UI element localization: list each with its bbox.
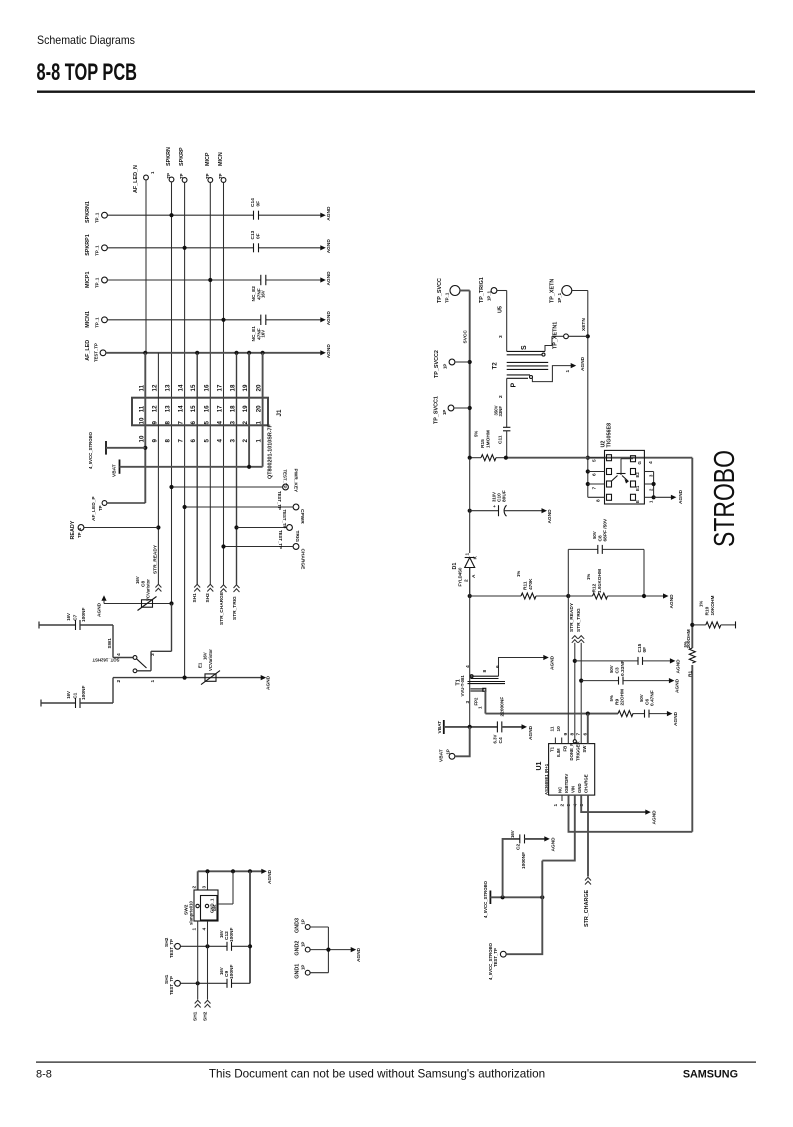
testpoint MICN1 TP_1 [85,311,107,328]
node STR_TRIG chevron to U1 [576,608,584,744]
power 4_5VCC_STROBO bar [88,431,145,469]
power VBAT bar [112,460,263,478]
svg-text:SH2: SH2 [203,1011,209,1021]
node SH1 chevron bottom [193,1000,201,1021]
svg-text:NC_E2: NC_E2 [251,286,257,302]
capacitor NC_E1 47NF 16V [251,315,266,342]
power 4_5VCC_STROBO bar right [483,880,544,918]
ground AGND R12 [663,593,675,608]
svg-text:AGND: AGND [356,947,362,962]
resistor R11 470K [468,571,569,599]
svg-text:CHARGE: CHARGE [300,549,306,571]
svg-text:1: 1 [565,370,571,373]
svg-text:A: A [471,574,477,578]
svg-text:VBAT: VBAT [439,749,445,762]
testpoint VBAT 1P [439,727,470,762]
svg-text:K: K [473,556,479,560]
svg-text:AS3685E1 IR+1: AS3685E1 IR+1 [544,763,549,795]
svg-text:20: 20 [256,384,263,391]
capacitor C1 100NF 16V [41,678,113,708]
capacitor C10 80UF 310V electrolytic [468,490,543,516]
testpoint PWR_KEY TEST_TP [169,469,298,494]
svg-text:AGND: AGND [97,602,103,617]
svg-text:R10: R10 [705,606,711,615]
svg-text:TP_1: TP_1 [445,292,450,303]
node STR_READY chevron [153,544,162,591]
svg-text:AF_LED_P: AF_LED_P [91,496,97,521]
capacitor C14 [250,198,262,220]
testpoint SPKRN1 TP_1 [85,201,107,223]
svg-text:IGBTDRV: IGBTDRV [564,774,569,793]
ground AGND row5 [320,344,332,359]
svg-text:TP: TP [166,173,171,179]
svg-text:1P_1: 1P_1 [487,290,492,301]
svg-text:4: 4 [217,421,224,425]
svg-text:TP_1: TP_1 [95,277,100,288]
testpoint TP_SVCC TP_1 [437,278,470,303]
svg-text:18: 18 [230,384,237,391]
svg-text:1MOHM: 1MOHM [486,430,492,448]
svg-text:TP: TP [218,173,223,179]
svg-text:50V: 50V [609,665,614,673]
wire J1 pin18-3 column STR_TRIG net [234,353,238,585]
svg-text:4_5VCC_STROBO: 4_5VCC_STROBO [483,880,488,918]
svg-text:MICP1: MICP1 [85,272,91,288]
testpoint SH1 TEST_TP [164,974,180,995]
svg-text:2: 2 [464,579,470,582]
svg-text:T2: T2 [492,362,499,370]
testpoint GND1 [295,964,311,979]
testpoint TP MICP [205,152,213,182]
resistor R10 10KOHM [692,596,735,629]
wire SH2 row [180,921,250,1000]
svg-text:0F: 0F [642,647,648,653]
ground AGND C3 [669,678,681,693]
svg-text:FB: FB [563,746,568,752]
svg-text:C2: C2 [516,844,522,850]
svg-text:TEST_TP: TEST_TP [278,530,283,549]
svg-text:det: det [212,904,217,911]
svg-text:16V: 16V [261,330,266,338]
svg-text:10KOHM: 10KOHM [710,596,716,616]
svg-text:7: 7 [178,421,185,425]
svg-text:STR_CHARGE: STR_CHARGE [219,591,225,625]
svg-text:2: 2 [498,395,504,398]
svg-text:1P_1: 1P_1 [557,292,562,303]
svg-text:SW: SW [582,745,587,753]
capacitor C8 68PF/50V feedback loop [566,518,644,598]
svg-text:C7: C7 [73,614,79,620]
svg-text:13: 13 [165,405,172,412]
svg-text:2: 2 [192,886,198,889]
ground AGND GND harness [351,947,362,962]
svg-text:33NF: 33NF [498,406,503,417]
svg-text:MICP: MICP [205,152,211,166]
svg-text:TEST_TP: TEST_TP [169,976,174,995]
ground AGND T1 pin6 [543,655,555,670]
svg-text:18: 18 [230,405,237,412]
svg-text:E: E [635,500,640,503]
svg-text:AGND: AGND [547,509,553,524]
ground AGND U1 GND [645,810,657,825]
svg-text:TIG056E8: TIG056E8 [607,423,613,448]
svg-text:SH2: SH2 [205,593,211,603]
svg-text:AGND: AGND [267,869,273,884]
wire T1 secondary row R9 C6 [485,712,668,716]
svg-text:SVCC: SVCC [463,330,469,344]
ground AGND row3 [320,271,332,286]
testpoint TP_SVCC2 [434,350,470,378]
capacitor C9 100NF 16V [219,965,235,988]
svg-text:STR_CHARGE: STR_CHARGE [584,889,590,927]
node STR_CHARGE chevron bottom [584,877,591,927]
svg-text:READY: READY [70,520,76,539]
svg-text:3: 3 [498,335,504,338]
diode D1 [452,458,479,596]
wire TRIG1 vertical [498,291,507,352]
resistor R1 200OHM [683,629,695,677]
testpoint SH2 TEST_TP [164,937,180,958]
transformer T2 [492,336,573,427]
svg-text:AGND: AGND [550,655,556,670]
ground AGND T2 pin1 [571,356,586,371]
wire U1 pin6 SW vertical [587,714,589,744]
svg-text:16V: 16V [66,613,71,621]
svg-text:R12: R12 [592,583,598,592]
svg-text:4: 4 [116,653,122,656]
svg-text:AGND: AGND [580,356,586,371]
svg-text:MICN1: MICN1 [85,311,91,328]
wire MICN1 row [107,318,320,322]
svg-text:0F: 0F [256,233,262,239]
svg-text:C14: C14 [250,198,256,207]
wire J1 pin19-2 column VBAT net [248,353,250,467]
wire MICP1 row [107,278,320,282]
svg-text:22000NF: 22000NF [500,697,506,717]
svg-text:1: 1 [256,421,263,425]
wire SPKRN vertical J1 pin13-8 column [171,182,173,604]
svg-text:TEST_TP: TEST_TP [94,343,99,362]
wire SVCC vertical [463,291,472,458]
svg-text:0F: 0F [256,201,262,207]
svg-text:2: 2 [242,439,249,443]
svg-text:TEST_TP: TEST_TP [169,939,174,958]
svg-text:3: 3 [649,474,654,477]
svg-text:U1: U1 [536,761,543,770]
svg-text:12: 12 [151,405,158,412]
svg-text:1P: 1P [301,919,306,924]
svg-text:1%: 1% [699,601,704,607]
svg-text:19: 19 [242,384,249,391]
svg-text:1: 1 [553,804,559,807]
svg-text:1: 1 [150,171,155,174]
wire AF_LED row [106,351,321,355]
wire J1 pin20-1 column [262,353,264,467]
svg-text:3: 3 [465,701,471,704]
resistor R12 1.91KOHM [568,569,664,599]
IC U1 AS3685E1 [536,726,595,807]
svg-text:8: 8 [569,733,575,736]
wire SPKRP vertical J1 pin14-7 column [184,183,186,678]
svg-text:FP2: FP2 [474,697,479,705]
svg-text:AF_LED_N: AF_LED_N [133,165,139,193]
svg-text:11: 11 [550,726,556,731]
capacitor C3 0.33NF 50V [581,660,670,684]
svg-text:STR_READY: STR_READY [569,602,575,632]
svg-text:200OHM: 200OHM [686,629,692,648]
testpoint AF_LED TEST_TP [85,340,106,362]
svg-text:16V: 16V [510,830,515,838]
svg-text:AGND: AGND [678,489,684,504]
wire SH1 row [180,921,250,1000]
svg-text:4: 4 [465,665,471,668]
svg-text:FYLD4S0: FYLD4S0 [458,567,463,586]
svg-text:5%: 5% [474,431,479,437]
svg-text:1: 1 [192,928,198,931]
testpoint GND2 [295,941,311,956]
svg-text:0.33NF: 0.33NF [620,660,626,676]
svg-text:TP_SVCC2: TP_SVCC2 [434,350,440,378]
svg-text:AGND: AGND [266,675,272,690]
svg-text:5: 5 [203,439,210,443]
svg-text:AGND: AGND [652,810,658,825]
svg-text:16V: 16V [135,576,140,584]
wire MICN vertical J1 pin17-4 column [223,183,225,585]
svg-text:STR_READY: STR_READY [153,544,159,574]
testpoint TP_XETN1 [552,322,588,349]
capacitor C7 100NF 16V [39,608,113,630]
svg-text:STR_TRIG: STR_TRIG [232,596,238,620]
svg-text:7: 7 [592,487,598,490]
testpoint TRIG TEST_TP [237,510,301,543]
capacitor C13 [250,230,262,252]
wire MICP vertical J1 pin16-5 column [209,183,211,585]
node SH1 chevron [192,584,200,602]
svg-text:QT800201-1010SR-7F: QT800201-1010SR-7F [268,423,274,479]
wire GND harness [310,927,352,973]
svg-text:C3: C3 [615,667,621,673]
svg-text:NC_E1: NC_E1 [251,326,257,342]
wire U1 pin2 IGBTDRV gate line [569,795,693,832]
svg-text:TP_1: TP_1 [95,317,100,328]
svg-text:14: 14 [178,384,185,391]
svg-text:1: 1 [478,706,484,709]
svg-text:SPKRN: SPKRN [166,147,172,166]
capacitor C12 100NF 16V [219,928,235,951]
svg-text:STR_TRIG: STR_TRIG [576,608,582,632]
testpoint CHARGE TEST_TP [221,530,305,570]
testpoint TP_XETN TP_1 [550,279,588,303]
J1 pin numbers inside bottom 10-1 [138,417,262,424]
svg-text:Schematic Diagrams: Schematic Diagrams [37,33,135,47]
svg-text:6: 6 [592,473,598,476]
svg-text:20: 20 [256,405,263,412]
svg-text:2: 2 [116,680,122,683]
svg-text:R15: R15 [480,439,486,448]
ground AGND C2 [544,836,556,851]
svg-text:6.3V: 6.3V [493,735,498,744]
svg-text:470K: 470K [528,578,534,590]
svg-text:7: 7 [576,733,582,736]
svg-text:C4: C4 [498,737,504,743]
svg-text:SPKRP1: SPKRP1 [85,234,91,256]
svg-text:5%: 5% [609,695,614,701]
wire U1 pin9 FB vertical [567,596,569,744]
svg-text:11: 11 [138,384,145,391]
svg-text:J1: J1 [276,409,283,416]
svg-text:19: 19 [242,405,249,412]
node SH2 chevron [205,584,213,602]
svg-text:8: 8 [165,439,172,443]
wire SW2 right vertical [248,871,252,983]
svg-text:8: 8 [165,421,172,425]
svg-text:1P: 1P [301,942,306,947]
svg-text:SOT_162HST: SOT_162HST [92,658,119,663]
svg-text:4: 4 [217,439,224,443]
svg-text:8: 8 [596,499,602,502]
svg-text:5: 5 [592,459,598,462]
testpoint TP_SVCC1 [434,396,470,424]
wire VIN to 4_5VCC [541,861,543,898]
svg-text:TP_SVCC1: TP_SVCC1 [434,396,440,424]
J1 pin numbers below outside 10-1 [138,435,262,442]
node STR_CHARGE chevron [219,585,227,625]
svg-text:AGND: AGND [551,837,557,852]
wire U1 pin4 GND [581,795,646,812]
svg-text:1P: 1P [442,410,447,415]
testpoint 4_5VCC_STROBO TEST_TP [488,897,542,980]
node STR_TRIG chevron [232,585,240,620]
svg-text:VCVaristor: VCVaristor [146,579,151,601]
svg-text:9: 9 [151,421,158,425]
svg-text:3: 3 [230,439,237,443]
ground AGND row4 [320,311,332,326]
svg-text:17: 17 [217,405,224,412]
svg-text:TP: TP [179,173,184,179]
capacitor C6 0.47NF 50V [639,690,656,717]
svg-text:15: 15 [190,384,197,391]
switch SW1 SOT_162HST [92,604,171,683]
testpoint MICP1 TP_1 [85,272,107,288]
ground AGND SW2 row [261,869,273,884]
svg-text:AGND: AGND [326,344,332,359]
wire J1 pin15-6 column SH1 net [196,353,198,585]
varistor C8 16V [135,576,174,610]
svg-text:16V: 16V [66,691,71,699]
svg-text:STROBO: STROBO [709,450,741,547]
wire J1 pin11-10 column AF_LED_P net [143,353,147,503]
svg-text:TP_TRIG1: TP_TRIG1 [479,277,485,303]
svg-text:17: 17 [217,384,224,391]
svg-text:SPKRP: SPKRP [179,147,185,166]
svg-text:4_5VCC_STROBO: 4_5VCC_STROBO [88,431,93,469]
testpoint TP SPKRN [166,147,174,182]
svg-text:15: 15 [190,405,197,412]
svg-text:T1: T1 [550,746,555,752]
svg-text:22OHM: 22OHM [620,689,626,706]
wire U1 pin3 VIN [542,795,575,861]
svg-text:100NF: 100NF [229,965,235,979]
svg-text:C1: C1 [73,692,79,698]
capacitor C15 0F [575,643,671,665]
svg-text:1%: 1% [516,571,521,577]
wire SW2 top AGND row [198,869,262,873]
wire U1 pin1 NC stub [561,795,563,801]
svg-text:+: + [492,505,497,508]
svg-text:R1: R1 [688,671,694,677]
J1 pin numbers inside top 11-20 [138,405,262,412]
svg-text:P: P [511,383,518,388]
svg-text:1P: 1P [301,965,306,970]
svg-text:2: 2 [649,488,654,491]
testpoint READY TP_1 [70,520,158,539]
svg-text:14: 14 [178,405,185,412]
svg-text:C11: C11 [498,435,504,444]
svg-text:CPWR: CPWR [299,509,305,524]
switch SW2 [184,871,234,930]
transformer T1 [456,568,545,727]
svg-text:TEST_TP: TEST_TP [277,491,282,510]
node SH2 chevron bottom [203,1000,211,1021]
testpoint CPWR TEST_TP [183,491,306,524]
svg-text:100NF: 100NF [81,686,87,700]
svg-text:16V: 16V [219,930,224,938]
capacitor C4 22000NF 6.3V [493,697,523,744]
svg-text:SH1: SH1 [192,593,198,603]
svg-text:AF_LED: AF_LED [85,340,91,361]
svg-text:E1: E1 [635,485,640,491]
svg-text:SW1: SW1 [107,638,113,649]
resistor R15 1MOHM [474,430,497,461]
svg-text:100NF: 100NF [81,608,87,622]
svg-text:310V: 310V [492,492,497,502]
capacitor C11 33NF 350V [494,405,511,457]
svg-text:5: 5 [203,421,210,425]
svg-text:TRIG: TRIG [294,531,300,543]
svg-text:TEST_TP: TEST_TP [493,948,498,967]
svg-text:6: 6 [190,439,197,443]
ground AGND row2 [320,239,332,254]
wire SPKRP1 row [107,246,320,250]
svg-text:1000NF: 1000NF [521,852,527,869]
ground AGND varistor row [97,595,142,617]
J1 pin numbers top outside 11-20 [138,384,262,391]
ground AGND C4 [522,724,535,740]
svg-text:10: 10 [138,435,145,442]
svg-text:1%: 1% [586,574,591,580]
testpoint SPKRP1 TP_1 [85,234,107,256]
svg-text:11: 11 [138,405,145,412]
svg-text:16V: 16V [203,652,208,660]
svg-text:AGND: AGND [675,678,681,693]
svg-text:3: 3 [150,653,156,656]
svg-text:16V: 16V [219,967,224,975]
svg-text:80UF: 80UF [502,490,508,502]
svg-text:U5: U5 [498,306,504,313]
svg-text:VBAT: VBAT [112,464,118,477]
svg-text:16: 16 [203,405,210,412]
svg-text:1P: 1P [446,749,451,754]
svg-text:50V: 50V [639,694,644,702]
svg-text:R11: R11 [523,581,529,590]
wire SPKRN1 row [107,213,320,217]
svg-text:8-8 TOP PCB: 8-8 TOP PCB [37,59,138,86]
svg-text:E1: E1 [198,662,203,668]
svg-text:PWR_KEY: PWR_KEY [293,469,299,494]
svg-text:TP_SVCC: TP_SVCC [437,278,443,303]
IGBT U2 TIG056E8 [588,423,654,504]
ground AGND U2 emitter [671,489,684,504]
